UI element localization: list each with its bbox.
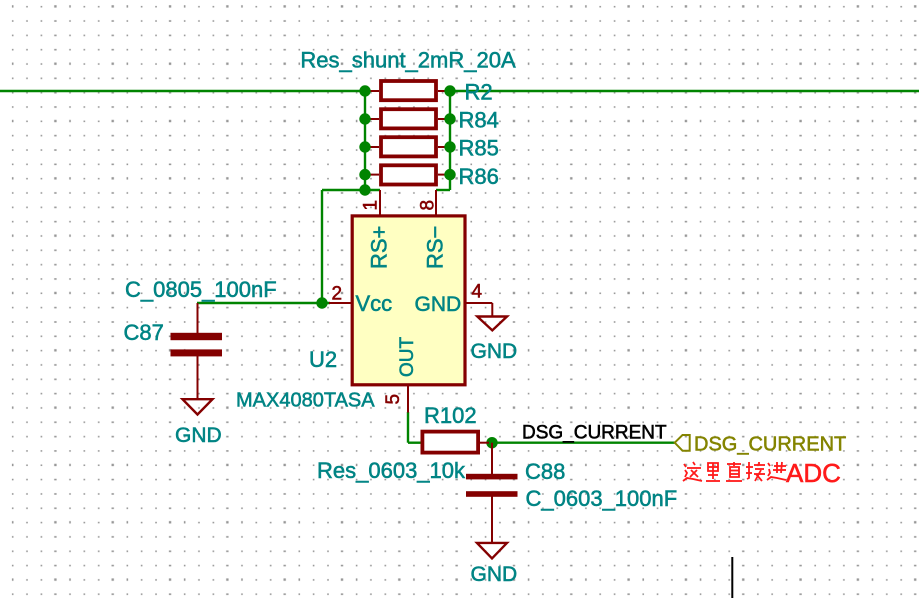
- svg-text:MAX4080TASA: MAX4080TASA: [236, 390, 375, 412]
- pin 2 Vcc: [329, 284, 392, 317]
- svg-text:R85: R85: [459, 135, 499, 160]
- label R84: [459, 108, 499, 133]
- junction (322,303): [316, 297, 327, 308]
- label Res_0603_10k: [317, 458, 466, 483]
- junction (365,190): [359, 184, 370, 195]
- junction (450,147): [444, 141, 455, 152]
- label R85: [459, 135, 499, 160]
- label R102: [424, 403, 477, 428]
- svg-text:U2: U2: [309, 347, 337, 372]
- label GND (C88): [471, 563, 518, 586]
- svg-text:C_0805_100nF: C_0805_100nF: [125, 277, 277, 302]
- title Res_shunt_2mR_20A: [300, 48, 516, 73]
- label MAX4080TASA: [236, 390, 375, 412]
- char jin: [767, 462, 786, 480]
- junction (365,119): [359, 113, 370, 124]
- comment text 这里直接进ADC: [683, 462, 786, 481]
- resistor R85: [365, 137, 450, 156]
- svg-text:GND: GND: [471, 340, 518, 363]
- svg-text:R2: R2: [465, 79, 493, 104]
- svg-text:GND: GND: [471, 563, 518, 586]
- svg-text:RS−: RS−: [423, 226, 448, 269]
- junction (450,119): [444, 113, 455, 124]
- label R2: [465, 79, 493, 104]
- junction (365,174.6): [359, 169, 370, 180]
- svg-text:R84: R84: [459, 108, 499, 133]
- resistor R84: [365, 109, 450, 128]
- pin 8 RS-: [418, 190, 448, 269]
- label GND (C87): [175, 424, 222, 447]
- wire main bus left (y=91): [0, 90, 365, 92]
- svg-text:R86: R86: [459, 164, 499, 189]
- junction (450,174.6): [444, 169, 455, 180]
- op-amp U1 body (MAX4080): [352, 216, 465, 385]
- hierarchical label DSG_CURRENT: [675, 434, 847, 456]
- svg-text:C88: C88: [525, 459, 565, 484]
- label C88: [525, 459, 565, 484]
- cursor line: [731, 557, 733, 598]
- wire Vcc horizontal y=303: [197, 302, 330, 304]
- svg-text:DSG_CURRENT: DSG_CURRENT: [522, 423, 667, 444]
- svg-text:DSG_CURRENT: DSG_CURRENT: [694, 434, 846, 456]
- label C_0805_100nF: [125, 277, 277, 302]
- svg-text:2: 2: [332, 284, 343, 305]
- resistor R2: [365, 81, 450, 100]
- junction (492,442.7): [486, 437, 497, 448]
- junction (365,91): [359, 85, 370, 96]
- svg-text:1: 1: [361, 200, 382, 211]
- label C_0603_100nF: [526, 486, 678, 511]
- wire OUT to R102: [408, 442, 421, 444]
- net label DSG_CURRENT: [522, 423, 667, 444]
- char zhi: [726, 462, 742, 481]
- svg-text:OUT: OUT: [397, 337, 418, 378]
- ground symbol at C88: [477, 543, 507, 559]
- resistor R102: [422, 432, 489, 453]
- resistor R86: [365, 165, 450, 184]
- pin 5 OUT: [383, 337, 418, 413]
- junction (450,91): [444, 85, 455, 96]
- svg-text:Vcc: Vcc: [356, 291, 393, 316]
- wire DSG_CURRENT net (y=442.7): [488, 442, 675, 444]
- svg-text:ADC: ADC: [786, 458, 841, 488]
- svg-text:5: 5: [383, 394, 404, 405]
- svg-text:RS+: RS+: [367, 226, 392, 269]
- wire right vertical bus x=450: [449, 91, 451, 190]
- svg-text:8: 8: [418, 200, 439, 211]
- char li: [706, 463, 720, 481]
- wire left vertical bus x=365: [364, 91, 366, 190]
- svg-text:C_0603_100nF: C_0603_100nF: [526, 486, 678, 511]
- char jie: [746, 462, 765, 481]
- wire OUT vertical x=408: [407, 412, 409, 443]
- svg-text:R102: R102: [424, 403, 477, 428]
- svg-text:GND: GND: [175, 424, 222, 447]
- ground symbol at C87: [183, 399, 213, 414]
- wire to pin 1 (y=190): [322, 189, 380, 191]
- wire to pin 8 (y=190): [436, 189, 450, 191]
- label C87: [124, 320, 164, 345]
- junction (365,147): [359, 141, 370, 152]
- wire main bus right (y=91): [450, 90, 919, 92]
- wire Vcc vertical x=322: [321, 190, 323, 303]
- svg-text:GND: GND: [415, 293, 462, 316]
- capacitor C88: [466, 443, 518, 543]
- label U2: [309, 347, 337, 372]
- ground symbol at pin 4: [477, 317, 507, 331]
- svg-text:4: 4: [472, 282, 483, 303]
- label GND (pin 4): [471, 340, 518, 363]
- svg-text:C87: C87: [124, 320, 164, 345]
- char zhe: [683, 462, 702, 481]
- label R86: [459, 164, 499, 189]
- pin 4 GND: [415, 282, 493, 317]
- svg-text:Res_shunt_2mR_20A: Res_shunt_2mR_20A: [300, 48, 516, 73]
- pin 1 RS+: [361, 190, 392, 269]
- svg-text:Res_0603_10k: Res_0603_10k: [317, 458, 466, 483]
- capacitor C87: [171, 303, 223, 399]
- comment text ADC: [786, 458, 841, 488]
